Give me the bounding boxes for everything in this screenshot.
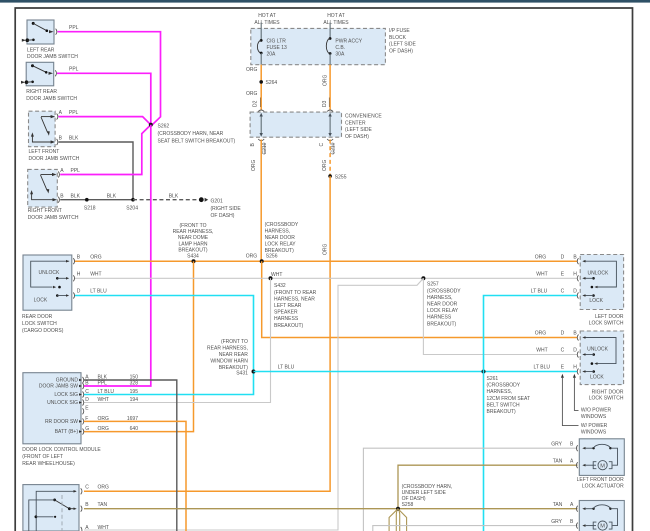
label LT BLU after S431 xyxy=(278,365,295,371)
svg-text:ORG: ORG xyxy=(323,75,329,87)
svg-text:D: D xyxy=(561,331,565,337)
svg-text:WINDOWS: WINDOWS xyxy=(581,430,607,436)
svg-text:328: 328 xyxy=(130,380,139,386)
junction S261 xyxy=(482,370,486,374)
svg-text:S434: S434 xyxy=(187,254,199,260)
svg-text:(FRONT TO: (FRONT TO xyxy=(221,339,248,345)
svg-text:ORG: ORG xyxy=(246,91,258,97)
svg-text:LEFT REAR: LEFT REAR xyxy=(27,47,55,53)
svg-text:RR DOOR SW: RR DOOR SW xyxy=(45,419,78,425)
svg-text:CONVENIENCE: CONVENIENCE xyxy=(345,114,382,120)
right rear jamb switch contacts xyxy=(21,64,53,84)
svg-text:LOCK: LOCK xyxy=(589,298,603,304)
right door lock switch box xyxy=(580,331,623,385)
svg-text:LEFT DOOR: LEFT DOOR xyxy=(595,314,624,320)
wire WHT bus rear switch to left door lock switch xyxy=(75,277,578,279)
wire ORG dashed segment below CC (right) xyxy=(329,140,331,177)
svg-text:30A: 30A xyxy=(335,52,345,58)
svg-text:(CROSSBODY: (CROSSBODY xyxy=(265,222,299,228)
label PPL xyxy=(69,25,79,31)
left rear jamb switch contacts xyxy=(22,22,54,42)
svg-text:DOOR JAMB SWITCH: DOOR JAMB SWITCH xyxy=(26,96,77,102)
svg-text:LOCK SWITCH: LOCK SWITCH xyxy=(589,320,624,326)
junction S257 xyxy=(421,276,425,280)
svg-text:H: H xyxy=(573,272,577,278)
svg-text:S255: S255 xyxy=(335,174,347,180)
svg-text:S204: S204 xyxy=(126,206,138,212)
svg-text:LT BLU: LT BLU xyxy=(534,365,551,371)
svg-text:H: H xyxy=(573,365,577,371)
wire BLK dashed to G201 xyxy=(133,199,197,201)
right rear door jamb switch box xyxy=(26,62,54,86)
svg-text:ORG: ORG xyxy=(535,331,547,337)
junction S262 xyxy=(149,123,153,127)
convenience center internal wire with arrows (right) xyxy=(328,113,331,137)
svg-text:REAR HARNESS,: REAR HARNESS, xyxy=(173,229,214,235)
svg-text:WINDOW HARN: WINDOW HARN xyxy=(210,359,248,365)
label CONVENIENCE CENTER (LEFT SIDE OF DASH) xyxy=(345,114,382,140)
svg-text:BREAKOUT): BREAKOUT) xyxy=(427,321,457,327)
wire TAN to left front actuator from S258 xyxy=(398,465,578,509)
junction S255 xyxy=(328,174,346,180)
label HOT AT ALL TIMES (right) xyxy=(323,13,349,26)
svg-text:S258: S258 xyxy=(402,502,414,508)
wire ORG fuse to convenience center (right) xyxy=(329,65,331,111)
svg-text:(LEFT SIDE: (LEFT SIDE xyxy=(389,42,417,48)
svg-text:HOT AT: HOT AT xyxy=(327,13,345,19)
svg-text:D2: D2 xyxy=(253,100,259,107)
label C210 rotated with underline (left) xyxy=(262,142,268,154)
svg-text:HARNESS: HARNESS xyxy=(274,316,299,322)
svg-text:RIGHT FRONT: RIGHT FRONT xyxy=(28,208,62,214)
svg-text:M: M xyxy=(600,524,605,530)
label C rotated (right wire below CC) xyxy=(319,143,325,147)
svg-text:C210: C210 xyxy=(331,142,337,154)
svg-text:ORG: ORG xyxy=(246,254,258,260)
right door lock switch internals xyxy=(582,336,616,380)
connector arcs at convenience center (right wire) xyxy=(327,110,333,141)
label S432 (FRONT TO REAR HARNESS, NEAR LEFT REAR SPEAKER HARNESS BREAKOUT) xyxy=(274,283,317,329)
svg-text:HOT AT: HOT AT xyxy=(258,13,276,19)
svg-text:BLK: BLK xyxy=(69,136,79,142)
left door lock switch box xyxy=(580,255,623,310)
svg-text:DOOR JAMB SWITCH: DOOR JAMB SWITCH xyxy=(28,215,79,221)
wire PPL left front jamb to S262 xyxy=(59,117,151,125)
convenience center internal wire with arrows (left) xyxy=(260,113,263,137)
module internal pin names xyxy=(39,378,79,436)
svg-text:UNLOCK: UNLOCK xyxy=(587,347,609,353)
svg-text:W/O POWER: W/O POWER xyxy=(581,408,612,414)
label ORG rotated above bus on S255 wire xyxy=(323,244,329,256)
labels ORG D B / WHT C D / LT BLU E H xyxy=(534,331,578,371)
label B rotated (left wire below CC) xyxy=(250,143,256,147)
labels A PPL / B BLK xyxy=(59,110,79,141)
labels C ORG / B TAN / A WHT xyxy=(85,485,109,531)
svg-text:NEAR DOOR: NEAR DOOR xyxy=(265,235,296,241)
svg-text:HARNESS, NEAR: HARNESS, NEAR xyxy=(274,296,315,302)
svg-text:C: C xyxy=(319,143,325,147)
svg-text:BREAKOUT): BREAKOUT) xyxy=(487,409,517,415)
svg-text:WHT: WHT xyxy=(98,397,109,403)
left front door jamb switch box xyxy=(29,111,56,147)
svg-text:LOCK SWITCH: LOCK SWITCH xyxy=(589,396,624,402)
svg-text:BREAKOUT): BREAKOUT) xyxy=(178,247,208,253)
svg-text:(LEFT SIDE: (LEFT SIDE xyxy=(345,127,373,133)
svg-text:WHT: WHT xyxy=(90,272,101,278)
label RIGHT REAR DOOR JAMB SWITCH xyxy=(26,89,77,102)
label (CROSSBODY HARNESS, NEAR DOOR LOCK RELAY BREAKOUT) xyxy=(265,222,299,254)
left front actuator internals xyxy=(582,444,617,469)
rear door lock switch box xyxy=(23,255,72,310)
wire BLK module pin A down off bottom xyxy=(84,380,177,531)
svg-text:BREAKOUT): BREAKOUT) xyxy=(274,323,304,329)
svg-text:C210: C210 xyxy=(262,142,268,154)
svg-text:CENTER: CENTER xyxy=(345,120,366,126)
svg-text:D: D xyxy=(573,289,577,295)
wire ORG module pin F down off bottom xyxy=(84,421,186,531)
label LEFT REAR DOOR JAMB SWITCH xyxy=(27,47,78,60)
label (CROSSBODY HARN, UNDER LEFT SIDE OF DASH) S258 xyxy=(402,484,452,508)
svg-text:G: G xyxy=(85,426,89,432)
svg-text:RIGHT REAR: RIGHT REAR xyxy=(26,89,57,95)
svg-text:TAN: TAN xyxy=(98,502,108,508)
label LEFT DOOR LOCK SWITCH xyxy=(589,314,624,326)
svg-text:PPL: PPL xyxy=(69,110,79,116)
label S262 (CROSSBODY HARN, NEAR SEAT BELT SWITCH BREAKOUT) xyxy=(158,124,236,145)
svg-text:BLK: BLK xyxy=(71,193,81,199)
junction S218 xyxy=(84,198,96,212)
svg-text:ORG: ORG xyxy=(98,426,110,432)
wire WHT S432 down to module pin D xyxy=(84,278,271,402)
svg-text:S218: S218 xyxy=(84,206,96,212)
labels GRY B / TAN A xyxy=(551,441,574,464)
label RIGHT DOOR LOCK SWITCH xyxy=(589,389,624,401)
connector arcs at convenience center (left wire) xyxy=(258,110,264,141)
label D3 rotated xyxy=(322,98,329,108)
label S261 (CROSSBODY HARNESS, 12CM FROM SEAT BELT SWITCH BREAKOUT) xyxy=(487,376,531,415)
module pin letters and wire labels xyxy=(85,374,138,432)
svg-text:LOCK: LOCK xyxy=(34,298,48,304)
svg-text:NEAR REAR: NEAR REAR xyxy=(219,352,249,358)
svg-text:GRY: GRY xyxy=(551,441,562,447)
svg-text:SPEAKER: SPEAKER xyxy=(274,310,298,316)
wire PPL right front jamb up to S262 xyxy=(60,125,151,175)
svg-text:LEFT REAR: LEFT REAR xyxy=(274,303,302,309)
wire TAN fan below S258 xyxy=(389,509,407,531)
svg-text:LT BLU: LT BLU xyxy=(278,365,295,371)
wire TAN bus rear actuator B to right front actuator A through S258 xyxy=(84,508,578,510)
svg-text:H: H xyxy=(77,272,81,278)
svg-text:D: D xyxy=(561,254,565,260)
wire ORG S255 down and left to rear actuator pin C xyxy=(84,176,330,491)
junction S432 xyxy=(269,276,273,280)
svg-text:TAN: TAN xyxy=(553,458,563,464)
label PWR ACCY C.B. 30A xyxy=(335,38,362,57)
junction S256 xyxy=(260,259,264,263)
junction S431 xyxy=(252,370,256,374)
svg-text:LT BLU: LT BLU xyxy=(98,389,115,395)
svg-text:WHT: WHT xyxy=(536,272,547,278)
wire WHT S257 down to right door lock switch xyxy=(423,278,577,354)
circuit breaker PWR ACCY C.B. 30A xyxy=(326,23,331,65)
labels TAN A / GRY B xyxy=(551,502,574,525)
svg-text:HARNESS,: HARNESS, xyxy=(265,229,291,235)
wire ORG S434 down to module pin G xyxy=(84,261,194,431)
svg-text:LOCK SIG: LOCK SIG xyxy=(54,392,78,398)
svg-text:S261: S261 xyxy=(487,376,499,382)
left front jamb switch contacts xyxy=(31,115,55,144)
left rear jamb switch pin bracket xyxy=(56,29,57,35)
labels B ORG / H WHT / D LT BLU xyxy=(77,254,107,294)
svg-text:HARNESS: HARNESS xyxy=(427,315,452,321)
label WHT near S432 xyxy=(271,272,282,278)
svg-text:C: C xyxy=(561,289,565,295)
svg-text:ORG: ORG xyxy=(246,67,258,73)
rear door lock switch internals xyxy=(31,260,69,304)
svg-text:LEFT FRONT: LEFT FRONT xyxy=(29,149,60,155)
svg-text:D: D xyxy=(573,348,577,354)
label CIG LTR FUSE 13 20A xyxy=(267,38,288,57)
left door lock switch internals xyxy=(582,260,616,304)
rear actuator pin brackets xyxy=(81,488,82,531)
arrow and line W/O POWER WINDOWS xyxy=(573,374,612,420)
wire WHT S257 to rear actuator pin A xyxy=(84,278,423,530)
label ORG rotated (right below CC) xyxy=(322,160,328,172)
svg-text:OF DASH): OF DASH) xyxy=(389,48,413,54)
svg-text:ORG: ORG xyxy=(98,485,110,491)
svg-text:C.B.: C.B. xyxy=(335,45,345,51)
svg-text:BATT (B+): BATT (B+) xyxy=(55,429,79,435)
svg-text:BREAKOUT): BREAKOUT) xyxy=(265,248,295,254)
svg-text:ORG: ORG xyxy=(90,254,102,260)
svg-text:194: 194 xyxy=(130,397,139,403)
svg-text:I/P FUSE: I/P FUSE xyxy=(389,28,410,34)
svg-text:UNLOCK SIG: UNLOCK SIG xyxy=(47,400,78,406)
svg-text:BLOCK: BLOCK xyxy=(389,35,407,41)
svg-text:ORG: ORG xyxy=(323,244,329,256)
left front actuator pin brackets xyxy=(576,445,577,468)
svg-text:PPL: PPL xyxy=(98,380,108,386)
label PPL xyxy=(69,67,79,73)
right front actuator internals xyxy=(582,505,617,530)
module pin arrowheads xyxy=(79,379,82,433)
svg-text:ORG: ORG xyxy=(535,254,547,260)
svg-text:LOCK ACTUATOR: LOCK ACTUATOR xyxy=(582,484,624,490)
wire LT BLU vertical through S261 to left door lock switch and off bottom xyxy=(484,296,578,531)
convenience center box xyxy=(250,112,341,137)
label DOOR LOCK CONTROL MODULE (FRONT OF LEFT REAR WHEELHOUSE) xyxy=(22,447,101,467)
svg-text:LT BLU: LT BLU xyxy=(90,289,107,295)
svg-text:640: 640 xyxy=(130,426,139,432)
wire GRY to left front actuator and off bottom xyxy=(363,448,577,531)
right front door lock actuator box xyxy=(579,501,624,531)
wire PPL left rear jamb to S262 xyxy=(58,32,161,125)
svg-text:D: D xyxy=(85,397,89,403)
svg-text:195: 195 xyxy=(130,389,139,395)
svg-text:(CROSSBODY: (CROSSBODY xyxy=(487,383,521,389)
svg-text:WINDOWS: WINDOWS xyxy=(581,414,607,420)
svg-text:G201: G201 xyxy=(211,199,223,205)
svg-text:D3: D3 xyxy=(322,100,328,107)
svg-text:ALL TIMES: ALL TIMES xyxy=(254,20,280,26)
junction S434 xyxy=(192,259,196,263)
svg-text:12CM FROM SEAT: 12CM FROM SEAT xyxy=(487,396,531,402)
svg-text:FUSE 13: FUSE 13 xyxy=(267,45,288,51)
label ORG xyxy=(246,91,258,97)
labels BLK on ground run xyxy=(107,193,179,199)
svg-text:W/ POWER: W/ POWER xyxy=(581,423,608,429)
svg-text:C: C xyxy=(561,348,565,354)
wire ORG bus rear switch to left door lock switch xyxy=(75,260,578,262)
svg-text:(CROSSBODY: (CROSSBODY xyxy=(427,288,461,294)
svg-text:HARNESS,: HARNESS, xyxy=(487,389,513,395)
svg-text:S432: S432 xyxy=(274,283,286,289)
svg-text:ALL TIMES: ALL TIMES xyxy=(323,20,349,26)
wire ORG S256 down and right to right door lock switch xyxy=(262,261,578,337)
door lock control module box xyxy=(23,373,81,444)
svg-text:(CARGO DOORS): (CARGO DOORS) xyxy=(22,328,64,334)
svg-text:WHT: WHT xyxy=(536,348,547,354)
label D2 rotated xyxy=(253,98,261,108)
labels A PPL / B BLK xyxy=(60,168,80,199)
left door lock switch pin brackets xyxy=(577,258,578,298)
svg-text:(CROSSBODY HARN, NEAR: (CROSSBODY HARN, NEAR xyxy=(158,131,224,137)
right front actuator pin brackets xyxy=(576,506,577,529)
svg-text:HARNESS,: HARNESS, xyxy=(427,295,453,301)
svg-text:D: D xyxy=(77,289,81,295)
label RIGHT FRONT DOOR JAMB SWITCH xyxy=(28,208,79,221)
ground G201 symbol xyxy=(199,197,208,202)
junction S264 xyxy=(259,80,277,86)
label (FRONT TO REAR HARNESS, NEAR REAR WINDOW HARN BREAKOUT) S431 xyxy=(207,339,248,377)
label I/P FUSE BLOCK (LEFT SIDE OF DASH) xyxy=(389,28,417,54)
svg-text:DOOR JAMB SWITCH: DOOR JAMB SWITCH xyxy=(27,54,78,60)
svg-text:M: M xyxy=(600,463,605,469)
svg-text:LT BLU: LT BLU xyxy=(531,289,548,295)
svg-text:BLK: BLK xyxy=(107,193,117,199)
svg-text:RIGHT DOOR: RIGHT DOOR xyxy=(592,389,624,395)
label LEFT FRONT DOOR JAMB SWITCH xyxy=(29,149,80,162)
top teal bar xyxy=(0,0,650,3)
wire PPL S262 down to module pin B xyxy=(84,125,151,386)
right front jamb pin brackets A and B xyxy=(58,172,59,203)
svg-text:GRY: GRY xyxy=(551,519,562,525)
svg-text:UNLOCK: UNLOCK xyxy=(39,270,61,276)
svg-text:TAN: TAN xyxy=(553,502,563,508)
label ORG rotated (left below CC) xyxy=(251,159,257,171)
label S257 (CROSSBODY HARNESS, NEAR DOOR LOCK RELAY HARNESS BREAKOUT) xyxy=(427,282,461,328)
svg-text:PPL: PPL xyxy=(69,25,79,31)
wire BLK right front jamb through S218 S204 xyxy=(60,199,133,201)
svg-text:DOOR JAMB SWITCH: DOOR JAMB SWITCH xyxy=(29,156,80,162)
left rear door jamb switch box xyxy=(27,20,54,44)
junction S258 xyxy=(396,507,400,511)
svg-text:PWR ACCY: PWR ACCY xyxy=(335,38,362,44)
svg-text:REAR HARNESS,: REAR HARNESS, xyxy=(207,346,248,352)
svg-text:LOCK RELAY: LOCK RELAY xyxy=(265,241,297,247)
label HOT AT ALL TIMES (left) xyxy=(254,13,280,26)
wire GRY to right front actuator and off bottom xyxy=(373,526,578,531)
svg-text:S264: S264 xyxy=(266,80,278,86)
svg-text:SEAT BELT SWITCH BREAKOUT): SEAT BELT SWITCH BREAKOUT) xyxy=(158,139,236,145)
svg-text:DOOR JAMB SW: DOOR JAMB SW xyxy=(39,384,78,390)
svg-text:LOCK: LOCK xyxy=(590,375,604,381)
svg-text:REAR WHEELHOUSE): REAR WHEELHOUSE) xyxy=(22,461,75,467)
wire BLK left front jamb to S204 xyxy=(59,142,134,200)
svg-text:PPL: PPL xyxy=(71,168,81,174)
svg-text:PPL: PPL xyxy=(69,67,79,73)
wire LT BLU S431 to right door lock switch xyxy=(254,371,578,373)
wire LT BLU rear switch D down to module pin C xyxy=(75,296,254,395)
svg-text:(RIGHT SIDE: (RIGHT SIDE xyxy=(211,206,242,212)
label LEFT FRONT DOOR LOCK ACTUATOR xyxy=(577,477,624,490)
arrow and line W/ POWER WINDOWS xyxy=(561,374,608,436)
right front door jamb switch box xyxy=(28,169,58,207)
svg-text:S256: S256 xyxy=(266,254,278,260)
svg-text:LOCK SWITCH: LOCK SWITCH xyxy=(22,321,57,327)
svg-text:UNLOCK: UNLOCK xyxy=(588,270,610,276)
svg-text:WHT: WHT xyxy=(271,272,282,278)
rear actuator box xyxy=(23,485,79,531)
svg-text:BLK: BLK xyxy=(169,193,179,199)
left front door lock actuator box xyxy=(579,439,624,476)
svg-text:20A: 20A xyxy=(267,52,277,58)
svg-text:WHT: WHT xyxy=(98,525,109,531)
svg-text:OF DASH): OF DASH) xyxy=(345,134,369,140)
svg-text:(FRONT OF LEFT: (FRONT OF LEFT xyxy=(22,454,63,460)
svg-text:CIG LTR: CIG LTR xyxy=(267,38,287,44)
svg-text:LEFT FRONT DOOR: LEFT FRONT DOOR xyxy=(577,477,624,483)
svg-text:DOOR LOCK CONTROL MODULE: DOOR LOCK CONTROL MODULE xyxy=(22,447,101,453)
svg-text:OF DASH): OF DASH) xyxy=(211,213,235,219)
svg-text:(FRONT TO REAR: (FRONT TO REAR xyxy=(274,290,317,296)
svg-text:S257: S257 xyxy=(427,282,439,288)
label ORG rotated (right wire) xyxy=(323,75,329,87)
svg-text:C: C xyxy=(85,389,89,395)
wire ORG fuse to convenience center (left) xyxy=(260,65,262,111)
fuse CIG LTR FUSE 13 20A xyxy=(257,23,262,65)
wire ORG convenience center down to ORG bus (left) xyxy=(260,140,262,262)
label ORG and S256 xyxy=(246,254,278,260)
svg-text:BELT SWITCH: BELT SWITCH xyxy=(487,402,521,408)
svg-text:LAMP HARN: LAMP HARN xyxy=(178,241,207,247)
svg-text:(FRONT TO: (FRONT TO xyxy=(180,223,207,229)
svg-text:LOCK RELAY: LOCK RELAY xyxy=(427,308,459,314)
wire PPL right rear jamb to S262 xyxy=(57,73,151,125)
I/P fuse block box xyxy=(251,28,386,64)
svg-text:REAR DOOR: REAR DOOR xyxy=(22,314,53,320)
svg-text:C: C xyxy=(85,485,89,491)
rear actuator internals xyxy=(29,490,77,531)
svg-text:ORG: ORG xyxy=(322,160,328,172)
label G201 (RIGHT SIDE OF DASH) xyxy=(211,199,242,219)
junction S204 xyxy=(126,198,138,212)
labels ORG D B / WHT E H / LT BLU C D xyxy=(531,254,578,294)
rear door lock switch pin brackets xyxy=(73,258,74,298)
svg-text:NEAR DOME: NEAR DOME xyxy=(178,235,209,241)
label ORG xyxy=(246,67,258,73)
right front jamb switch contacts xyxy=(30,173,57,201)
svg-text:NEAR DOOR: NEAR DOOR xyxy=(427,302,458,308)
left front jamb pin brackets A and B xyxy=(57,114,58,145)
right rear jamb switch pin bracket xyxy=(55,70,56,76)
svg-text:S431: S431 xyxy=(236,371,248,377)
right door lock switch pin brackets xyxy=(577,335,578,375)
label C210 rotated with underline (right) xyxy=(331,142,337,154)
svg-text:ORG: ORG xyxy=(251,159,257,171)
svg-text:S262: S262 xyxy=(158,124,170,130)
label REAR DOOR LOCK SWITCH (CARGO DOORS) xyxy=(22,314,64,334)
